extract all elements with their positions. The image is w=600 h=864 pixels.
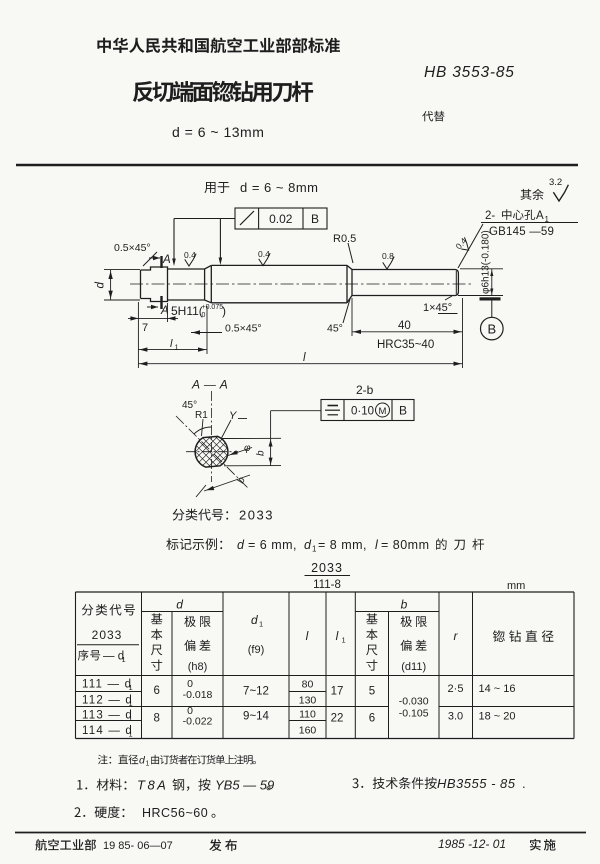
svg-text:(d11): (d11) (401, 661, 426, 673)
svg-text:80: 80 (302, 679, 314, 691)
svg-text:-0.105: -0.105 (399, 708, 429, 720)
svg-text:111-8: 111-8 (313, 579, 341, 591)
svg-text:B: B (399, 404, 407, 418)
svg-text:= 80mm: = 80mm (381, 538, 430, 552)
svg-text:1: 1 (129, 699, 133, 708)
svg-text:130: 130 (299, 695, 317, 707)
svg-text:b: b (235, 476, 247, 485)
svg-text:l: l (375, 538, 379, 552)
svg-text:40: 40 (398, 320, 411, 332)
svg-text:1: 1 (129, 714, 133, 723)
svg-text:HB3555 - 85: HB3555 - 85 (437, 776, 516, 791)
svg-text:A: A (162, 254, 171, 266)
top rule (16, 164, 578, 167)
svg-text:2-: 2- (485, 210, 495, 222)
svg-text:M: M (379, 406, 387, 417)
dia dimension phi6h13 extension lines (460, 268, 503, 270)
note 用于 d=6~8mm (204, 182, 229, 193)
svg-text:d = 6 ~ 8mm: d = 6 ~ 8mm (240, 180, 318, 195)
datum B circle (491, 301, 493, 318)
svg-text:1: 1 (129, 683, 133, 692)
svg-text:R0.5: R0.5 (333, 233, 356, 245)
marking example line (166, 538, 222, 550)
svg-text:45°: 45° (327, 323, 343, 335)
tolerance leader lines (174, 218, 235, 220)
leader to tolerance frame (271, 410, 321, 412)
svg-text:8: 8 (153, 713, 159, 725)
svg-text:(f9): (f9) (248, 644, 265, 656)
svg-text:-0.018: -0.018 (183, 689, 213, 701)
svg-text:= 8 mm,: = 8 mm, (318, 538, 367, 552)
phi6h13 rotated dim text (481, 230, 492, 294)
dim 7 (137, 302, 139, 368)
footer 实施 (530, 839, 556, 851)
svg-text:l: l (170, 338, 173, 350)
svg-text:18 ~ 20: 18 ~ 20 (478, 711, 515, 723)
svg-text:0.02: 0.02 (269, 212, 293, 226)
note 3 tech conditions (352, 777, 436, 789)
svg-text:-0.022: -0.022 (183, 716, 213, 728)
standard header: 中华人民共和国航空工业部部标准 (97, 38, 340, 54)
svg-text:HRC56~60: HRC56~60 (142, 806, 208, 820)
svg-text:6: 6 (369, 713, 375, 725)
svg-text:0: 0 (202, 312, 206, 319)
title 反切端面锪钻用刀杆 (133, 81, 313, 102)
svg-text:A — A: A — A (191, 378, 228, 392)
centerline (130, 283, 472, 285)
svg-text:YB5 — 59: YB5 — 59 (215, 778, 274, 793)
svg-text:113 — d: 113 — d (82, 710, 133, 722)
svg-text:d: d (95, 282, 107, 289)
svg-text:d = 6 ~ 13mm: d = 6 ~ 13mm (172, 124, 264, 140)
dim l1 (206, 306, 208, 354)
代替 (replaces) (422, 111, 444, 122)
shaft head outline (neck ring, collar, slot section) (141, 265, 212, 302)
svg-text:A: A (536, 210, 544, 222)
section vertical centerline (211, 391, 213, 482)
svg-text:): ) (222, 304, 226, 318)
svg-text:114 — d: 114 — d (82, 725, 133, 737)
datum B target bar (480, 297, 501, 300)
note 1 material (77, 779, 126, 791)
dim b (vertical) (222, 437, 281, 439)
svg-text:1: 1 (175, 343, 179, 352)
svg-text:17: 17 (331, 686, 344, 698)
svg-text:1: 1 (312, 545, 317, 554)
svg-text:(h8): (h8) (188, 661, 208, 673)
svg-text:1×45°: 1×45° (423, 302, 452, 314)
table header 极限偏差(h8) (184, 616, 210, 627)
table header 极限偏差(d11) (401, 616, 427, 627)
tolerance frame 2 (symmetry 0.10 M B) (321, 400, 414, 421)
svg-text:φ6h13(-0.180): φ6h13(-0.180) (481, 230, 492, 294)
svg-text:d: d (304, 538, 312, 552)
footer rule (15, 832, 586, 834)
svg-text:r: r (454, 629, 459, 643)
label phi with arrow (228, 448, 252, 456)
svg-text:= 6 mm,: = 6 mm, (248, 538, 297, 552)
svg-text:GB145 —59: GB145 —59 (489, 226, 554, 238)
svg-text:2-b: 2-b (356, 383, 374, 397)
table header 锪钻直径 (493, 630, 554, 642)
svg-text:2033: 2033 (92, 628, 123, 642)
svg-text:2033: 2033 (239, 508, 274, 523)
svg-text:1985 -12- 01: 1985 -12- 01 (438, 837, 506, 851)
svg-text:b: b (256, 450, 267, 456)
dim b (slanted) (204, 475, 250, 491)
section mark A (top) (160, 256, 162, 268)
classification code line (173, 509, 229, 521)
section horizontal centerline (186, 451, 238, 453)
svg-text:111 — d: 111 — d (82, 679, 132, 691)
svg-text:b: b (401, 598, 408, 612)
svg-text:B: B (311, 212, 319, 226)
svg-text:7: 7 (142, 322, 148, 334)
svg-text:φ: φ (244, 443, 251, 454)
dim d (left) (104, 269, 140, 271)
svg-text:5H11(: 5H11( (171, 304, 203, 318)
note 2 hardness (75, 806, 125, 818)
svg-text:1: 1 (342, 636, 346, 645)
svg-text:HB 3553-85: HB 3553-85 (424, 64, 515, 81)
svg-text:l: l (306, 629, 309, 643)
svg-text:2033: 2033 (311, 561, 343, 575)
footer issuing 航空工业部 1985-06-07 (35, 839, 96, 851)
svg-text:1: 1 (259, 620, 263, 629)
svg-text:B: B (487, 322, 496, 337)
center hole leader and callout 2-中心孔A1 (458, 224, 483, 268)
svg-text:9~14: 9~14 (243, 711, 270, 723)
svg-text:5: 5 (369, 686, 375, 698)
table header col1 分类代号 2033 序号-d1 (82, 604, 135, 616)
svg-text:l: l (303, 352, 306, 364)
svg-text:.: . (522, 776, 526, 791)
svg-text:1: 1 (545, 215, 550, 224)
svg-text:2·5: 2·5 (448, 683, 464, 695)
svg-text:112 — d: 112 — d (82, 695, 133, 707)
svg-text:d: d (251, 613, 258, 627)
tip with chamfer (456, 270, 459, 296)
svg-text:d: d (237, 538, 245, 552)
svg-text:mm: mm (507, 580, 525, 592)
table header 基本尺寸 (b) (366, 613, 377, 670)
svg-text:19 85- 06—07: 19 85- 06—07 (103, 840, 173, 852)
table header 基本尺寸 (d) (151, 613, 162, 670)
dim 40 (351, 298, 353, 336)
table note 注 (98, 755, 138, 765)
table outer and grid lines (76, 591, 575, 593)
dim l (462, 298, 464, 368)
svg-text:R1: R1 (195, 410, 208, 421)
svg-text:Y: Y (229, 410, 237, 422)
svg-text:3.0: 3.0 (448, 711, 463, 723)
svg-text:T8A: T8A (137, 778, 168, 793)
svg-text:-0.030: -0.030 (399, 696, 429, 708)
svg-text:+0.075: +0.075 (202, 304, 224, 311)
svg-text:0.5×45°: 0.5×45° (225, 323, 262, 335)
svg-text:l: l (336, 629, 339, 643)
svg-text:6: 6 (153, 685, 159, 697)
section outline (circle with flats) (194, 436, 229, 468)
svg-text:110: 110 (299, 709, 316, 721)
footer 发布 (209, 839, 237, 851)
svg-text:22: 22 (331, 713, 344, 725)
section mark A (bottom) (160, 296, 162, 309)
svg-text:14 ~ 16: 14 ~ 16 (478, 683, 515, 695)
svg-text:0.5×45°: 0.5×45° (114, 242, 151, 254)
svg-text:7~12: 7~12 (243, 686, 269, 698)
shank outline (352, 269, 456, 271)
svg-text:3.2: 3.2 (549, 177, 562, 188)
svg-text:HRC35~40: HRC35~40 (377, 339, 434, 351)
main body outline (211, 264, 347, 266)
svg-text:1: 1 (122, 655, 126, 664)
svg-text:1: 1 (129, 730, 133, 739)
svg-text:160: 160 (299, 725, 317, 737)
tolerance frame /0.02/B (235, 208, 327, 229)
section 45deg centerline (176, 416, 248, 488)
chamfer 0.5x45 (slot) (191, 332, 222, 334)
svg-text:0·10: 0·10 (351, 406, 374, 418)
svg-text:d: d (176, 598, 183, 612)
roughness 0.4 at tip (rotated) (453, 235, 473, 255)
svg-text:1: 1 (146, 761, 150, 768)
